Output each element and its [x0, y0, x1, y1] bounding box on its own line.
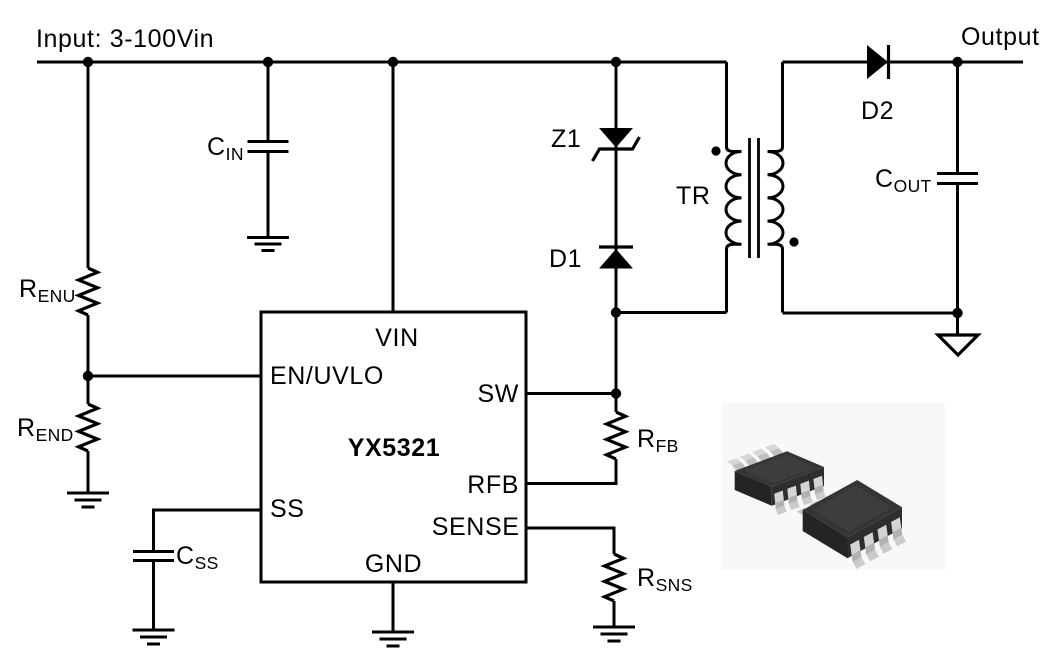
wire SENSE pin [526, 528, 614, 554]
IC photo left package pins upper-left [727, 444, 783, 471]
resistor RENU [79, 268, 98, 315]
wire D1 to transformer primary bottom [616, 311, 727, 314]
transformer TR secondary winding [768, 62, 784, 313]
wire CSS to ground [152, 561, 155, 631]
resistor RSNS [605, 554, 624, 601]
IC photo left package body left face [735, 471, 772, 506]
node input junction left column [83, 57, 93, 67]
diode D1 [599, 247, 633, 269]
wire CIN top [267, 62, 270, 142]
wire SW pin [526, 392, 616, 395]
svg-text:SS: SS [270, 495, 305, 523]
svg-text:TR: TR [676, 182, 711, 210]
IC photo right package pin tips upper-left [797, 501, 825, 517]
IC photo right package body top plateau [813, 486, 893, 532]
svg-text:SENSE: SENSE [432, 513, 520, 541]
wire to output ground [956, 313, 959, 335]
IC photo right package body top face [803, 480, 902, 537]
node input junction VIN [388, 57, 398, 67]
op-amp U1 YX5321 box [261, 312, 526, 582]
wire top input rail [37, 61, 727, 64]
capacitor CIN [248, 142, 289, 152]
wire EN/UVLO [88, 375, 261, 378]
IC photo right package body left face [803, 510, 848, 558]
wire SS pin [154, 510, 262, 552]
svg-text:CIN: CIN [207, 133, 244, 164]
resistor RFB [607, 412, 626, 459]
svg-text:YX5321: YX5321 [348, 434, 441, 462]
ground output triangle [938, 335, 978, 355]
node input junction Z1 [611, 57, 621, 67]
svg-text:VIN: VIN [375, 324, 418, 352]
IC photo right package pins lower-right [850, 517, 906, 569]
transformer TR primary winding [726, 62, 742, 313]
wire COUT bottom [956, 184, 959, 314]
svg-text:REND: REND [17, 414, 74, 445]
svg-text:Input: 3-100Vin: Input: 3-100Vin [36, 25, 214, 53]
svg-text:RFB: RFB [637, 425, 679, 456]
svg-text:RSNS: RSNS [637, 564, 693, 595]
node SW RFB junction [611, 388, 621, 398]
IC photo background [722, 403, 945, 570]
ground below CIN [247, 238, 289, 251]
svg-text:CSS: CSS [176, 542, 219, 573]
IC photo left package body top plateau [744, 455, 816, 483]
wire COUT column [956, 62, 959, 174]
ground below RSNS [593, 627, 635, 641]
node output bottom junction [952, 308, 962, 318]
capacitor CSS [133, 552, 174, 561]
svg-text:D2: D2 [861, 97, 894, 125]
svg-text:GND: GND [365, 550, 422, 578]
node input junction CIN [263, 57, 273, 67]
wire left column middle [87, 315, 90, 404]
zener diode Z1 [593, 128, 640, 161]
transformer TR core [750, 138, 759, 258]
wire VIN [392, 62, 395, 312]
wire GND pin [392, 582, 395, 632]
wire Z1 D1 column [615, 62, 618, 412]
IC photo left package pins lower-right [774, 476, 826, 515]
svg-text:Output: Output [961, 23, 1040, 51]
svg-text:COUT: COUT [875, 165, 932, 196]
node EN divider junction [83, 371, 93, 381]
node TR primary phase dot [711, 146, 720, 155]
wire RFB to RFB pin [526, 459, 616, 484]
wire CIN bottom [267, 152, 270, 238]
svg-text:EN/UVLO: EN/UVLO [270, 362, 384, 390]
diode D2 [867, 45, 889, 79]
resistor REND [79, 404, 98, 451]
IC photo left package body right face [772, 467, 824, 506]
wire left column upper [87, 62, 90, 268]
ground below CSS [133, 630, 175, 644]
node output junction [952, 57, 962, 67]
IC photo left package body top face [735, 451, 824, 486]
svg-text:Z1: Z1 [551, 125, 581, 153]
wire secondary bottom rail [783, 312, 958, 315]
svg-text:SW: SW [478, 380, 519, 408]
svg-text:D1: D1 [549, 245, 582, 273]
node TR secondary phase dot [789, 237, 798, 246]
ground below REND [67, 493, 109, 507]
node D1 transformer junction [611, 307, 621, 317]
wire top output rail [783, 61, 1024, 64]
capacitor COUT [937, 174, 978, 184]
IC photo right package body right face [848, 507, 903, 558]
wire REND to ground [87, 451, 90, 493]
wire RSNS to ground [613, 601, 616, 627]
svg-text:RENU: RENU [19, 275, 76, 306]
ground below GND pin [372, 632, 414, 646]
svg-text:RFB: RFB [467, 471, 519, 499]
